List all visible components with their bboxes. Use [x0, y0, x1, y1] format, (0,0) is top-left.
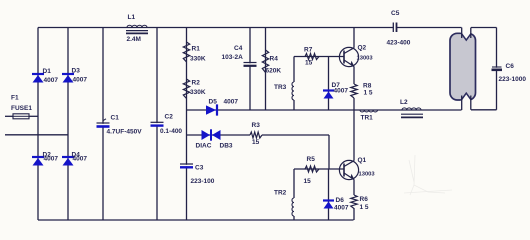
- transformer winding TR3: [274, 82, 294, 100]
- transformer winding TR2: [274, 190, 294, 217]
- wire D6 column: [328, 169, 330, 220]
- resistor R3 15: [250, 122, 262, 146]
- svg-text:C2: C2: [165, 114, 174, 121]
- capacitor C5 423-400: [387, 10, 411, 47]
- resistor R8 15: [351, 83, 373, 99]
- svg-text:DIAC: DIAC: [196, 143, 212, 150]
- wire AC input lower to D3 D4 junction: [5, 134, 68, 136]
- wire second bridge column D3 D4: [67, 28, 69, 221]
- inductor L2: [400, 99, 423, 117]
- diode D3 1N4007: [62, 68, 87, 84]
- svg-text:TR2: TR2: [274, 190, 287, 197]
- svg-text:R7: R7: [304, 47, 313, 54]
- lamp top-right pin: [470, 28, 472, 39]
- wire TR2 column top: [293, 169, 295, 198]
- wire fuse to bridge: [29, 115, 38, 117]
- svg-text:L2: L2: [400, 99, 408, 106]
- svg-text:4.7UF-450V: 4.7UF-450V: [107, 129, 143, 136]
- svg-text:R5: R5: [307, 156, 316, 163]
- svg-text:L1: L1: [128, 14, 136, 21]
- svg-text:DB3: DB3: [220, 143, 233, 150]
- svg-text:R2: R2: [192, 80, 201, 87]
- inductor L1 2.4M: [126, 14, 148, 43]
- diode D5 1N4007: [206, 99, 238, 116]
- svg-text:R1: R1: [192, 46, 201, 53]
- svg-text:4007: 4007: [334, 205, 349, 212]
- wire top rail C5 to lamp top-left pin: [397, 27, 462, 29]
- svg-text:330K: 330K: [190, 56, 206, 63]
- capacitor C1 4.7UF-450V: [97, 115, 143, 136]
- wire lamp bottom-right pin to right vertical: [471, 109, 497, 111]
- svg-text:4007: 4007: [224, 99, 239, 106]
- capacitor C3 223-100: [180, 164, 215, 185]
- svg-text:15: 15: [305, 60, 313, 67]
- transistor Q1 13003: [339, 157, 375, 180]
- resistor R7 15: [304, 47, 319, 67]
- fluorescent lamp tube: [450, 32, 476, 101]
- svg-text:R8: R8: [363, 83, 372, 90]
- svg-text:R6: R6: [360, 196, 369, 203]
- svg-text:Q2: Q2: [358, 45, 367, 52]
- capacitor C2 0.1-400: [151, 114, 183, 136]
- wire C1 column: [102, 28, 104, 221]
- svg-text:15: 15: [304, 178, 312, 185]
- wire Q2 collector: [353, 28, 355, 48]
- svg-text:4007: 4007: [334, 88, 349, 95]
- svg-text:C1: C1: [111, 115, 120, 122]
- capacitor C6 223-1000: [492, 63, 527, 83]
- ghost artifact marks: [404, 155, 452, 195]
- lamp bottom-right pin: [470, 96, 472, 110]
- svg-text:C5: C5: [391, 10, 400, 17]
- svg-text:13003: 13003: [359, 172, 376, 178]
- lamp top-left pin: [461, 28, 463, 39]
- wire R8 to midpoint: [353, 98, 355, 110]
- diac DB3: [196, 129, 233, 149]
- wire top positive rail (bridge to C5): [38, 27, 393, 29]
- svg-text:TR1: TR1: [361, 115, 374, 122]
- wire AC input to fuse: [5, 115, 13, 117]
- wire left bridge column D1 D2: [37, 28, 39, 221]
- fuse F1 FUSE1: [11, 95, 32, 119]
- resistor R4 620K: [262, 50, 281, 75]
- svg-text:13003: 13003: [357, 56, 374, 62]
- svg-text:D6: D6: [336, 197, 345, 204]
- wire TR3 column top: [293, 57, 295, 83]
- svg-text:1 5: 1 5: [360, 204, 369, 211]
- svg-text:2.4M: 2.4M: [127, 36, 141, 43]
- svg-text:4007: 4007: [73, 156, 88, 163]
- resistor R5 15: [304, 156, 320, 185]
- wire midpoint horizontal (D5 TR1 L2 to lamp): [187, 109, 462, 111]
- wire Q1 collector: [353, 110, 355, 161]
- svg-text:R4: R4: [270, 56, 279, 63]
- wire R1 R2 C3 column: [186, 28, 188, 221]
- svg-text:4007: 4007: [73, 77, 88, 84]
- svg-text:FUSE1: FUSE1: [11, 105, 32, 112]
- wire R6 to bottom rail: [353, 208, 355, 220]
- svg-text:330K: 330K: [190, 89, 206, 96]
- wire right vertical with C6: [496, 28, 498, 110]
- svg-text:0.1-400: 0.1-400: [160, 128, 182, 135]
- wire R3 bend down to Q1 base: [328, 135, 330, 169]
- svg-text:TR3: TR3: [274, 84, 287, 91]
- svg-text:C3: C3: [195, 165, 204, 172]
- transformer winding TR1: [360, 110, 378, 122]
- svg-text:620K: 620K: [266, 68, 282, 75]
- svg-text:15: 15: [252, 139, 260, 146]
- diode D1 1N4007: [32, 68, 58, 84]
- diode D7 1N4007: [323, 82, 348, 99]
- svg-text:D1: D1: [43, 68, 52, 75]
- wire D7 column: [328, 57, 330, 111]
- svg-text:C4: C4: [234, 45, 243, 52]
- svg-text:223-1000: 223-1000: [499, 76, 527, 83]
- diode D6 1N4007: [323, 197, 349, 212]
- svg-text:Q1: Q1: [358, 157, 367, 164]
- wire TR2 column bottom: [293, 216, 295, 220]
- svg-text:D3: D3: [72, 68, 81, 75]
- lamp bottom-left pin: [461, 96, 463, 111]
- svg-text:D5: D5: [209, 99, 218, 106]
- wire DIAC R3 horizontal: [187, 134, 330, 136]
- wire Q2 emitter to R8: [353, 67, 355, 85]
- wire TR3 column bottom: [293, 100, 295, 110]
- svg-text:R3: R3: [252, 122, 261, 129]
- resistor R1 330K: [183, 42, 206, 63]
- diode D4 1N4007: [62, 152, 87, 166]
- svg-text:F1: F1: [11, 95, 19, 102]
- svg-text:103-2A: 103-2A: [222, 54, 244, 61]
- svg-text:4007: 4007: [44, 77, 59, 84]
- svg-text:4007: 4007: [44, 156, 59, 163]
- svg-text:1 5: 1 5: [364, 90, 373, 97]
- wire lamp top-right pin to right vertical: [471, 27, 497, 29]
- svg-text:423-400: 423-400: [387, 40, 411, 47]
- diode D2 1N4007: [32, 152, 58, 166]
- resistor R2 330K: [183, 79, 206, 99]
- svg-text:C6: C6: [506, 63, 515, 70]
- wire R4 column: [265, 28, 267, 111]
- wire bottom negative rail: [38, 219, 354, 221]
- capacitor C4 103-2A: [222, 45, 257, 66]
- svg-text:223-100: 223-100: [191, 178, 215, 185]
- transistor Q2 13003: [339, 45, 373, 68]
- wire Q1 emitter to R6: [353, 180, 355, 196]
- wire Q1 base: [294, 168, 344, 170]
- resistor R6 15: [351, 195, 369, 211]
- wire C2 column: [156, 28, 158, 221]
- wire C4 column: [249, 28, 251, 111]
- wire Q2 base: [294, 56, 344, 58]
